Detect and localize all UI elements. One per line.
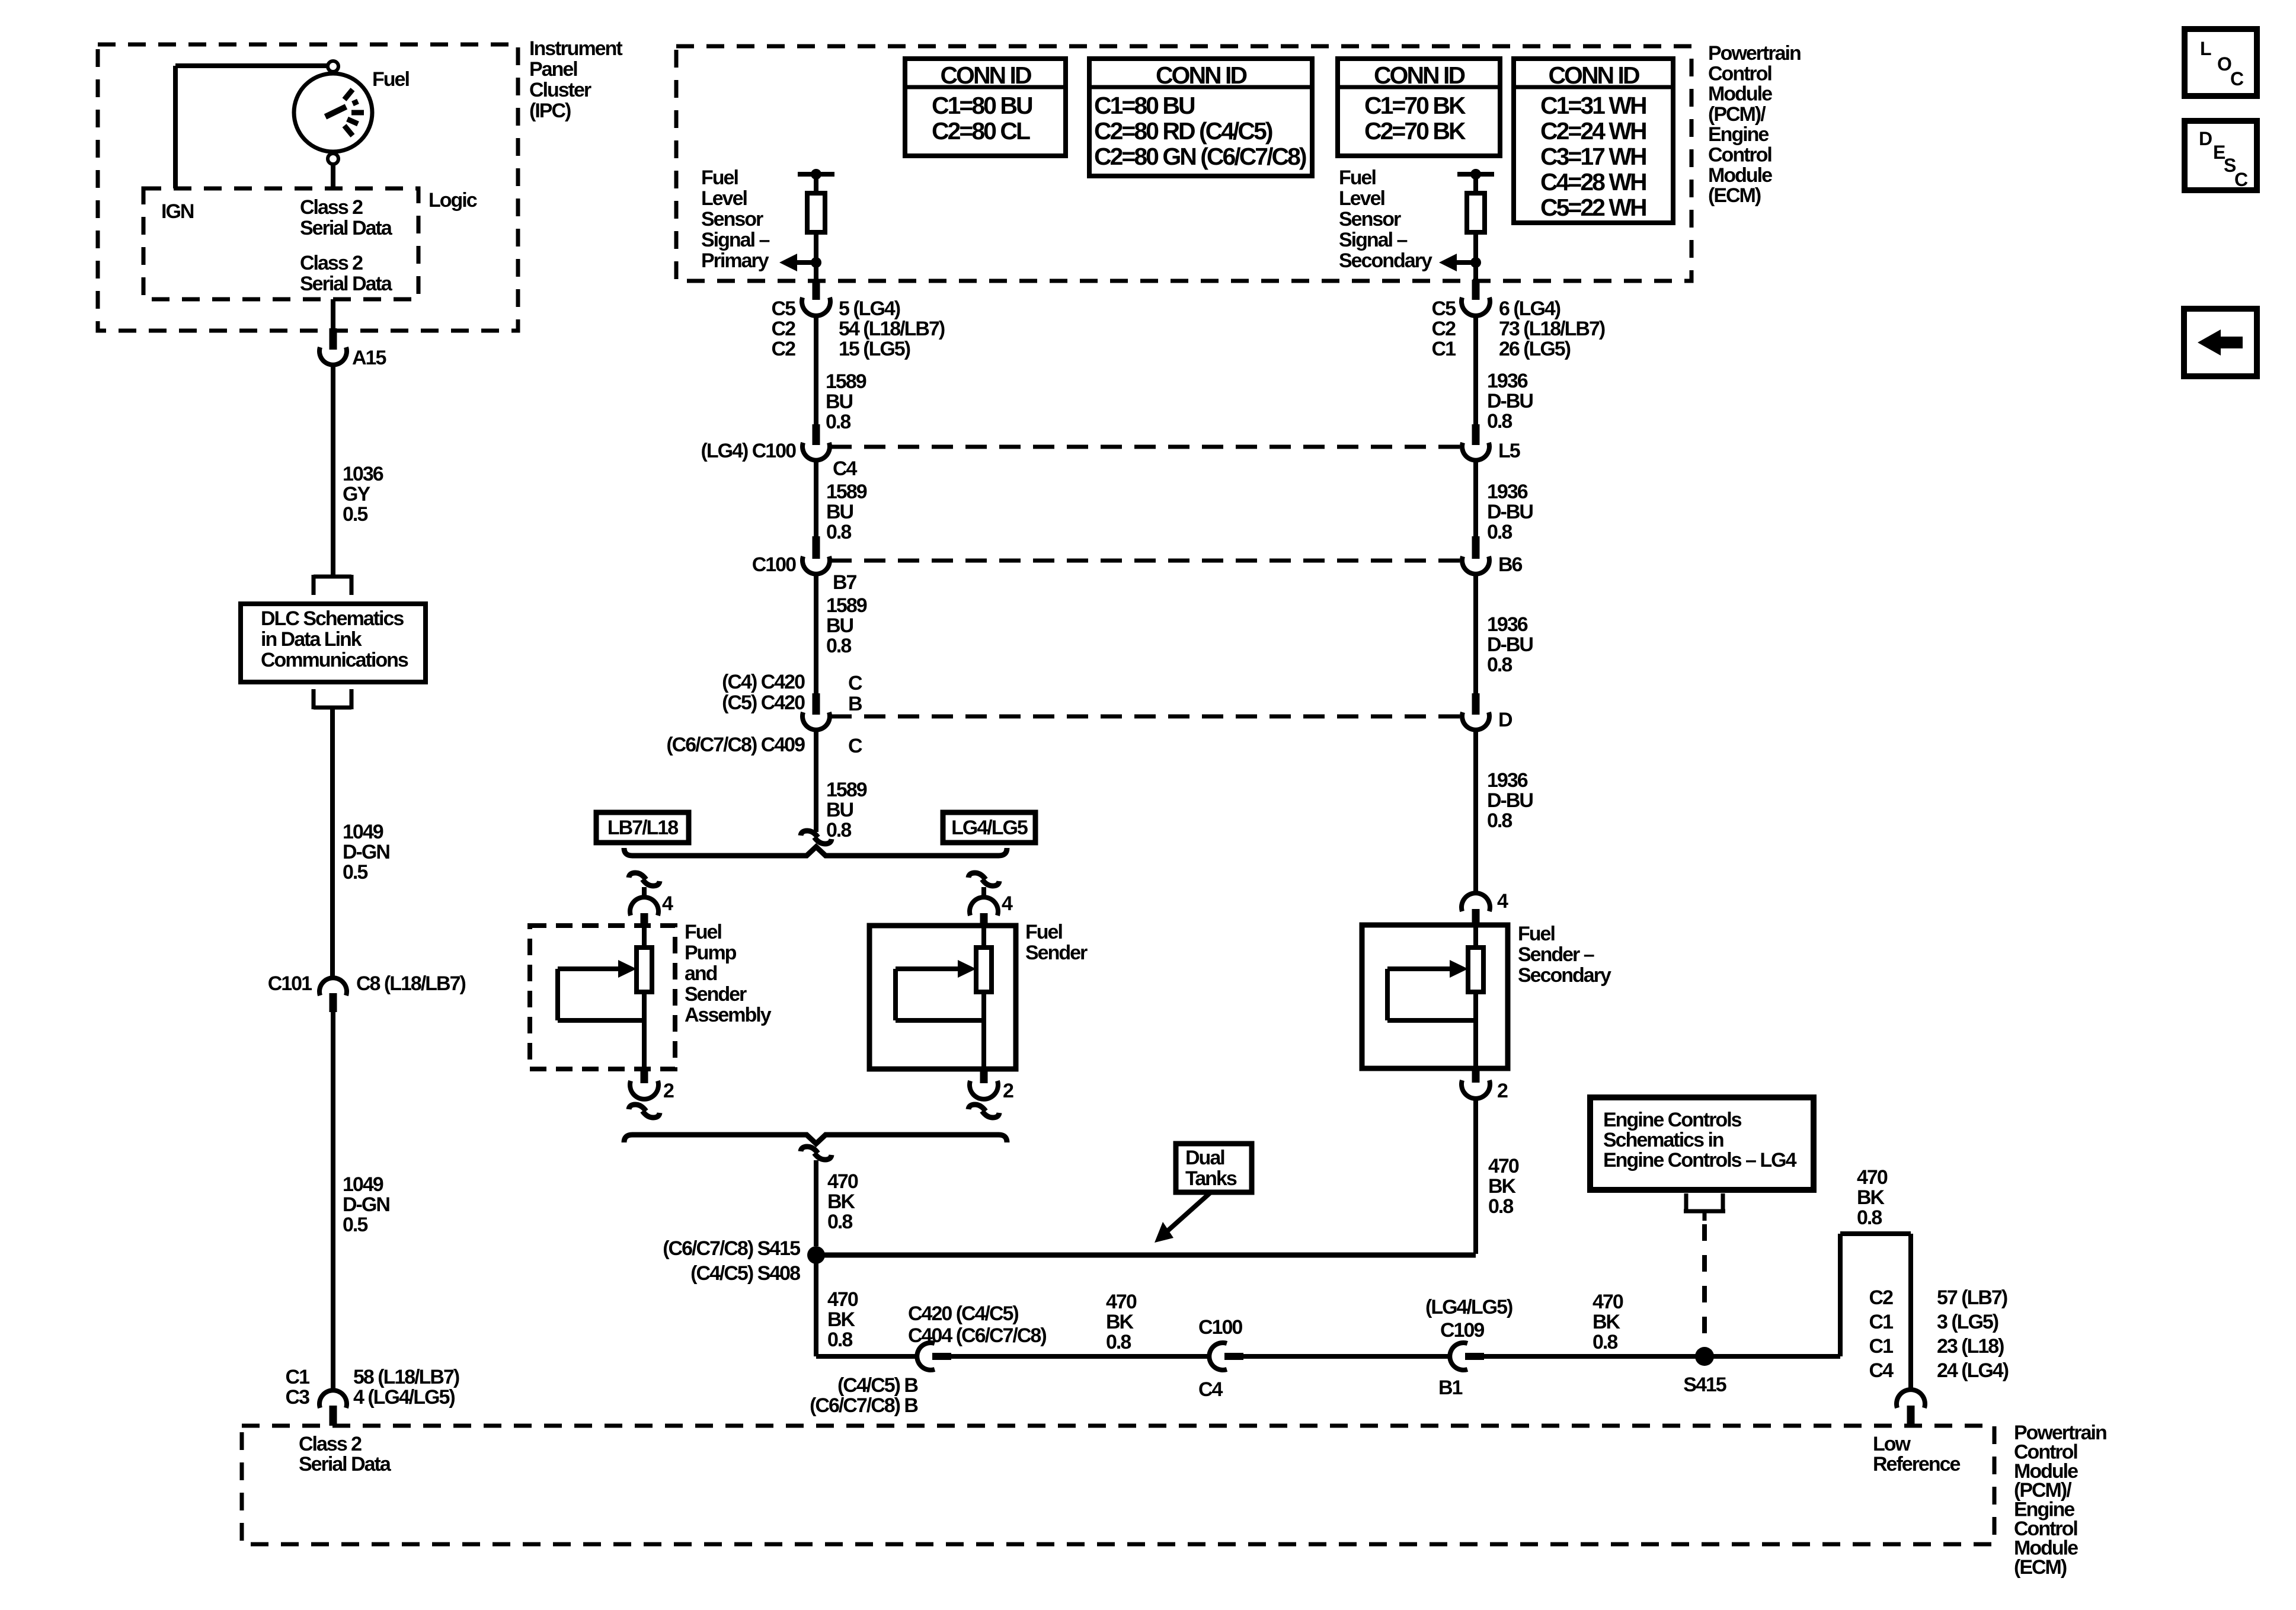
- svg-text:26 (LG5): 26 (LG5): [1499, 338, 1571, 360]
- svg-text:4 (LG4/LG5): 4 (LG4/LG5): [353, 1386, 455, 1409]
- svg-text:Engine: Engine: [1708, 123, 1769, 146]
- svg-text:Sensor: Sensor: [701, 208, 763, 231]
- svg-text:BK: BK: [1488, 1175, 1517, 1198]
- svg-text:(C4/C5) S408: (C4/C5) S408: [690, 1262, 800, 1285]
- svg-text:DLC Schematics: DLC Schematics: [261, 607, 404, 630]
- svg-text:C3: C3: [286, 1386, 310, 1409]
- svg-text:0.8: 0.8: [826, 521, 851, 543]
- svg-text:B7: B7: [833, 571, 857, 594]
- svg-text:23 (L18): 23 (L18): [1937, 1335, 2004, 1358]
- svg-text:C1=70 BK: C1=70 BK: [1364, 92, 1466, 119]
- svg-text:D-BU: D-BU: [1487, 633, 1533, 656]
- svg-text:L5: L5: [1498, 440, 1520, 462]
- svg-text:1049: 1049: [343, 821, 383, 843]
- svg-text:(C6/C7/C8) C409: (C6/C7/C8) C409: [666, 734, 805, 756]
- svg-text:(LG4) C100: (LG4) C100: [701, 440, 797, 462]
- svg-text:54 (L18/LB7): 54 (L18/LB7): [839, 318, 945, 340]
- svg-text:(ECM): (ECM): [1708, 184, 1761, 207]
- svg-text:58 (L18/LB7): 58 (L18/LB7): [353, 1366, 459, 1388]
- svg-text:BU: BU: [826, 799, 853, 821]
- svg-text:1589: 1589: [826, 594, 867, 617]
- svg-text:O: O: [2217, 53, 2231, 75]
- svg-text:1936: 1936: [1487, 481, 1528, 503]
- svg-text:0.8: 0.8: [826, 635, 851, 657]
- svg-text:C2: C2: [1869, 1286, 1894, 1309]
- svg-text:Panel: Panel: [529, 58, 577, 81]
- svg-text:0.8: 0.8: [1487, 410, 1512, 433]
- svg-text:C: C: [2230, 68, 2244, 89]
- svg-text:(PCM)/: (PCM)/: [1708, 103, 1766, 126]
- svg-text:C2: C2: [1432, 318, 1456, 340]
- svg-text:Engine Controls: Engine Controls: [1603, 1109, 1742, 1131]
- svg-text:0.5: 0.5: [343, 861, 367, 884]
- svg-text:C4: C4: [1869, 1359, 1894, 1382]
- svg-text:(IPC): (IPC): [529, 100, 571, 122]
- svg-text:Signal –: Signal –: [701, 229, 769, 251]
- svg-text:C100: C100: [1198, 1316, 1242, 1339]
- svg-text:3 (LG5): 3 (LG5): [1937, 1311, 1998, 1333]
- svg-text:1936: 1936: [1487, 613, 1528, 636]
- svg-text:Sender: Sender: [685, 983, 747, 1006]
- svg-text:1589: 1589: [826, 481, 867, 503]
- svg-text:2: 2: [1003, 1080, 1013, 1102]
- svg-text:Class 2: Class 2: [300, 196, 363, 219]
- svg-text:0.5: 0.5: [343, 503, 367, 526]
- svg-text:2: 2: [1497, 1080, 1508, 1102]
- svg-text:Class 2: Class 2: [299, 1433, 362, 1455]
- svg-text:(ECM): (ECM): [2014, 1556, 2067, 1579]
- svg-text:0.5: 0.5: [343, 1214, 367, 1236]
- svg-text:BK: BK: [1106, 1311, 1134, 1333]
- svg-text:D-GN: D-GN: [343, 841, 389, 863]
- svg-text:C4: C4: [833, 457, 858, 480]
- svg-text:0.8: 0.8: [826, 411, 850, 433]
- svg-text:(C6/C7/C8) S415: (C6/C7/C8) S415: [663, 1237, 800, 1260]
- svg-text:Assembly: Assembly: [685, 1004, 772, 1026]
- svg-text:470: 470: [1857, 1166, 1888, 1189]
- svg-text:Signal –: Signal –: [1339, 229, 1407, 251]
- svg-text:470: 470: [827, 1170, 858, 1193]
- svg-text:0.8: 0.8: [1593, 1331, 1617, 1353]
- svg-text:C3=17 WH: C3=17 WH: [1540, 143, 1646, 170]
- svg-text:15 (LG5): 15 (LG5): [839, 338, 910, 360]
- svg-text:1936: 1936: [1487, 769, 1528, 792]
- svg-text:C1: C1: [286, 1366, 310, 1388]
- svg-text:C1: C1: [1869, 1335, 1894, 1358]
- svg-text:Class 2: Class 2: [300, 252, 363, 274]
- svg-text:BK: BK: [827, 1190, 856, 1213]
- svg-text:D-GN: D-GN: [343, 1193, 389, 1216]
- svg-text:D-BU: D-BU: [1487, 501, 1533, 523]
- svg-text:470: 470: [1488, 1155, 1519, 1177]
- svg-text:B1: B1: [1438, 1377, 1463, 1399]
- svg-text:1936: 1936: [1487, 370, 1528, 392]
- svg-text:Serial Data: Serial Data: [300, 273, 393, 295]
- svg-text:0.8: 0.8: [826, 819, 851, 841]
- svg-text:C5=22 WH: C5=22 WH: [1540, 194, 1646, 221]
- svg-text:CONN ID: CONN ID: [940, 62, 1031, 89]
- svg-text:LG4/LG5: LG4/LG5: [951, 817, 1028, 839]
- svg-text:(C5) C420: (C5) C420: [722, 692, 805, 714]
- svg-text:CONN ID: CONN ID: [1156, 62, 1247, 89]
- svg-text:CONN ID: CONN ID: [1548, 62, 1639, 89]
- svg-text:C420 (C4/C5): C420 (C4/C5): [908, 1302, 1018, 1325]
- svg-text:57 (LB7): 57 (LB7): [1937, 1286, 2007, 1309]
- svg-text:Cluster: Cluster: [529, 79, 591, 101]
- svg-text:C2=70 BK: C2=70 BK: [1364, 117, 1466, 145]
- svg-text:Communications: Communications: [261, 649, 408, 671]
- svg-text:GY: GY: [343, 483, 370, 505]
- svg-text:BU: BU: [826, 614, 853, 637]
- svg-text:C1=80 BU: C1=80 BU: [932, 92, 1032, 119]
- svg-text:C2=80 CL: C2=80 CL: [932, 117, 1030, 145]
- svg-text:Level: Level: [701, 187, 747, 210]
- svg-text:C404 (C6/C7/C8): C404 (C6/C7/C8): [908, 1324, 1046, 1347]
- svg-text:BK: BK: [1857, 1186, 1885, 1209]
- svg-text:C4=28 WH: C4=28 WH: [1540, 168, 1646, 196]
- svg-text:1036: 1036: [343, 463, 383, 485]
- svg-text:Reference: Reference: [1873, 1453, 1961, 1475]
- svg-text:Fuel: Fuel: [372, 68, 409, 91]
- svg-text:24 (LG4): 24 (LG4): [1937, 1359, 2009, 1382]
- svg-text:Serial Data: Serial Data: [300, 217, 393, 239]
- svg-text:in Data Link: in Data Link: [261, 628, 362, 651]
- svg-text:A15: A15: [352, 347, 386, 369]
- svg-text:BK: BK: [1593, 1311, 1621, 1333]
- svg-text:4: 4: [1002, 892, 1013, 915]
- svg-text:(C6/C7/C8) B: (C6/C7/C8) B: [810, 1394, 918, 1417]
- svg-text:Logic: Logic: [428, 189, 477, 212]
- svg-text:0.8: 0.8: [1487, 521, 1512, 543]
- svg-text:C2: C2: [772, 318, 796, 340]
- svg-text:C2: C2: [772, 338, 796, 360]
- svg-text:470: 470: [1106, 1291, 1137, 1313]
- svg-text:D-BU: D-BU: [1487, 789, 1533, 812]
- svg-text:BU: BU: [826, 391, 853, 413]
- svg-text:0.8: 0.8: [827, 1329, 852, 1351]
- svg-text:Sensor: Sensor: [1339, 208, 1401, 231]
- svg-text:Control: Control: [1708, 62, 1771, 85]
- svg-text:0.8: 0.8: [1487, 654, 1512, 676]
- svg-text:C: C: [848, 672, 862, 694]
- svg-text:Engine Controls – LG4: Engine Controls – LG4: [1603, 1149, 1797, 1172]
- svg-text:(C4) C420: (C4) C420: [722, 671, 805, 693]
- svg-text:C: C: [848, 735, 862, 757]
- svg-text:Tanks: Tanks: [1185, 1167, 1237, 1190]
- svg-text:0.8: 0.8: [1487, 809, 1512, 832]
- svg-text:Module: Module: [1708, 83, 1772, 105]
- svg-text:1049: 1049: [343, 1173, 383, 1196]
- svg-text:Low: Low: [1873, 1433, 1911, 1455]
- svg-text:CONN ID: CONN ID: [1374, 62, 1465, 89]
- svg-text:470: 470: [827, 1288, 858, 1311]
- svg-text:0.8: 0.8: [1857, 1206, 1882, 1229]
- svg-text:Pump: Pump: [685, 942, 737, 964]
- svg-text:C109: C109: [1440, 1319, 1484, 1342]
- svg-text:BK: BK: [827, 1308, 856, 1331]
- svg-text:C2=80 GN (C6/C7/C8): C2=80 GN (C6/C7/C8): [1094, 143, 1306, 170]
- svg-text:Secondary: Secondary: [1518, 964, 1611, 987]
- svg-text:(C4/C5) B: (C4/C5) B: [837, 1374, 918, 1397]
- svg-text:C5: C5: [772, 297, 796, 320]
- svg-text:5 (LG4): 5 (LG4): [839, 297, 900, 320]
- svg-text:C5: C5: [1432, 297, 1456, 320]
- svg-text:0.8: 0.8: [1488, 1195, 1513, 1218]
- svg-text:(LG4/LG5): (LG4/LG5): [1425, 1296, 1512, 1318]
- svg-text:4: 4: [1497, 890, 1508, 913]
- svg-text:LB7/L18: LB7/L18: [607, 817, 678, 839]
- svg-text:Serial Data: Serial Data: [299, 1453, 392, 1475]
- svg-text:C1: C1: [1869, 1311, 1894, 1333]
- svg-text:Level: Level: [1339, 187, 1384, 210]
- svg-text:6 (LG4): 6 (LG4): [1499, 297, 1560, 320]
- svg-text:C2=24 WH: C2=24 WH: [1540, 117, 1646, 145]
- svg-text:BU: BU: [826, 501, 853, 523]
- svg-text:4: 4: [662, 892, 673, 915]
- svg-text:Fuel: Fuel: [1518, 923, 1555, 945]
- svg-text:C: C: [2234, 169, 2248, 190]
- svg-text:Control: Control: [1708, 144, 1771, 167]
- svg-text:Fuel: Fuel: [701, 167, 738, 189]
- svg-text:IGN: IGN: [161, 200, 194, 223]
- svg-text:Fuel: Fuel: [1025, 921, 1062, 943]
- svg-text:D: D: [2199, 128, 2212, 149]
- svg-text:and: and: [685, 962, 717, 985]
- svg-text:470: 470: [1593, 1291, 1623, 1313]
- svg-text:C2=80 RD (C4/C5): C2=80 RD (C4/C5): [1094, 117, 1272, 145]
- svg-text:Powertrain: Powertrain: [1708, 42, 1801, 65]
- svg-text:L: L: [2200, 38, 2211, 59]
- svg-text:S415: S415: [1683, 1374, 1726, 1396]
- svg-text:Secondary: Secondary: [1339, 249, 1432, 272]
- svg-text:C100: C100: [752, 553, 796, 576]
- svg-text:C4: C4: [1198, 1378, 1223, 1401]
- svg-text:Sender: Sender: [1025, 942, 1088, 964]
- svg-text:Sender –: Sender –: [1518, 943, 1594, 966]
- svg-text:Fuel: Fuel: [685, 921, 721, 943]
- svg-text:0.8: 0.8: [1106, 1331, 1131, 1353]
- svg-text:C1=31 WH: C1=31 WH: [1540, 92, 1646, 119]
- svg-text:Fuel: Fuel: [1339, 167, 1376, 189]
- svg-text:Schematics in: Schematics in: [1603, 1129, 1723, 1151]
- svg-text:1589: 1589: [826, 779, 867, 801]
- svg-text:C8 (L18/LB7): C8 (L18/LB7): [356, 972, 465, 995]
- svg-text:73 (L18/LB7): 73 (L18/LB7): [1499, 318, 1605, 340]
- svg-text:D: D: [1498, 709, 1512, 731]
- svg-text:Module: Module: [1708, 164, 1772, 187]
- svg-text:Dual: Dual: [1185, 1147, 1224, 1169]
- svg-text:2: 2: [663, 1080, 674, 1102]
- svg-text:0.8: 0.8: [827, 1211, 852, 1233]
- svg-text:Instrument: Instrument: [529, 37, 622, 60]
- svg-text:C1: C1: [1432, 338, 1456, 360]
- svg-text:C101: C101: [268, 972, 312, 995]
- svg-text:C1=80 BU: C1=80 BU: [1094, 92, 1195, 119]
- svg-text:D-BU: D-BU: [1487, 390, 1533, 412]
- svg-text:1589: 1589: [826, 370, 866, 393]
- svg-text:B6: B6: [1498, 553, 1523, 576]
- svg-text:Primary: Primary: [701, 249, 769, 272]
- svg-text:B: B: [848, 693, 862, 715]
